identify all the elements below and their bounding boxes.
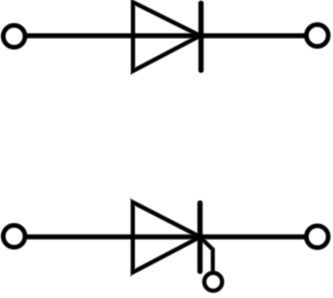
diode D1 cathode bar	[198, 3, 205, 70]
terminal circle (bottom left)	[3, 225, 25, 247]
terminal circle (top right)	[306, 25, 328, 47]
terminal circle (bottom right)	[306, 226, 328, 248]
thyristor V1 cathode bar	[197, 203, 204, 271]
gate terminal circle	[204, 273, 222, 291]
wire (top net, horizontal anode-cathode connection)	[27, 32, 306, 39]
thyristor V1 anode triangle	[133, 202, 200, 272]
diode D1 anode triangle	[133, 2, 200, 71]
wire (bottom net, horizontal anode-cathode connection)	[27, 234, 306, 241]
terminal circle (top left)	[3, 25, 25, 47]
gate wire (diagonal + vertical segment)	[200, 237, 213, 272]
